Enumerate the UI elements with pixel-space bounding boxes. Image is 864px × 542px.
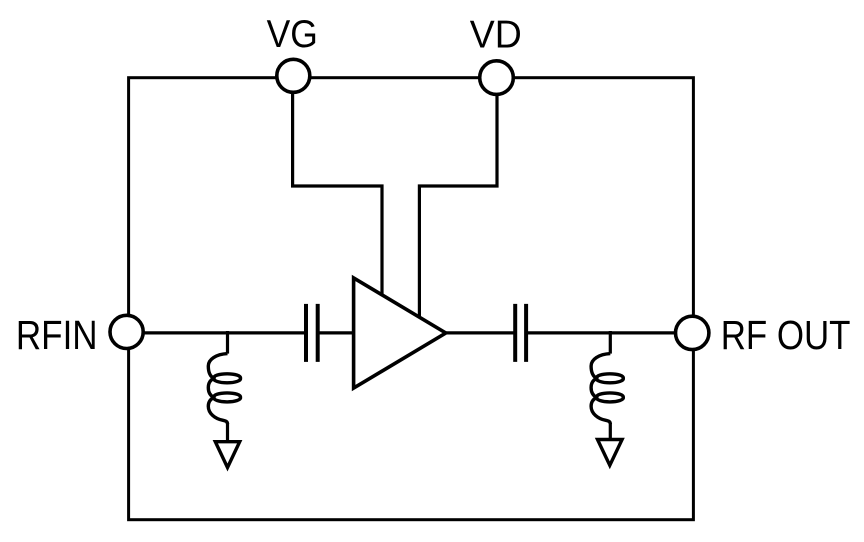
svg-text:RF OUT: RF OUT bbox=[721, 312, 851, 358]
svg-text:VG: VG bbox=[267, 13, 318, 56]
svg-text:RFIN: RFIN bbox=[16, 312, 98, 358]
svg-text:VD: VD bbox=[470, 13, 522, 56]
